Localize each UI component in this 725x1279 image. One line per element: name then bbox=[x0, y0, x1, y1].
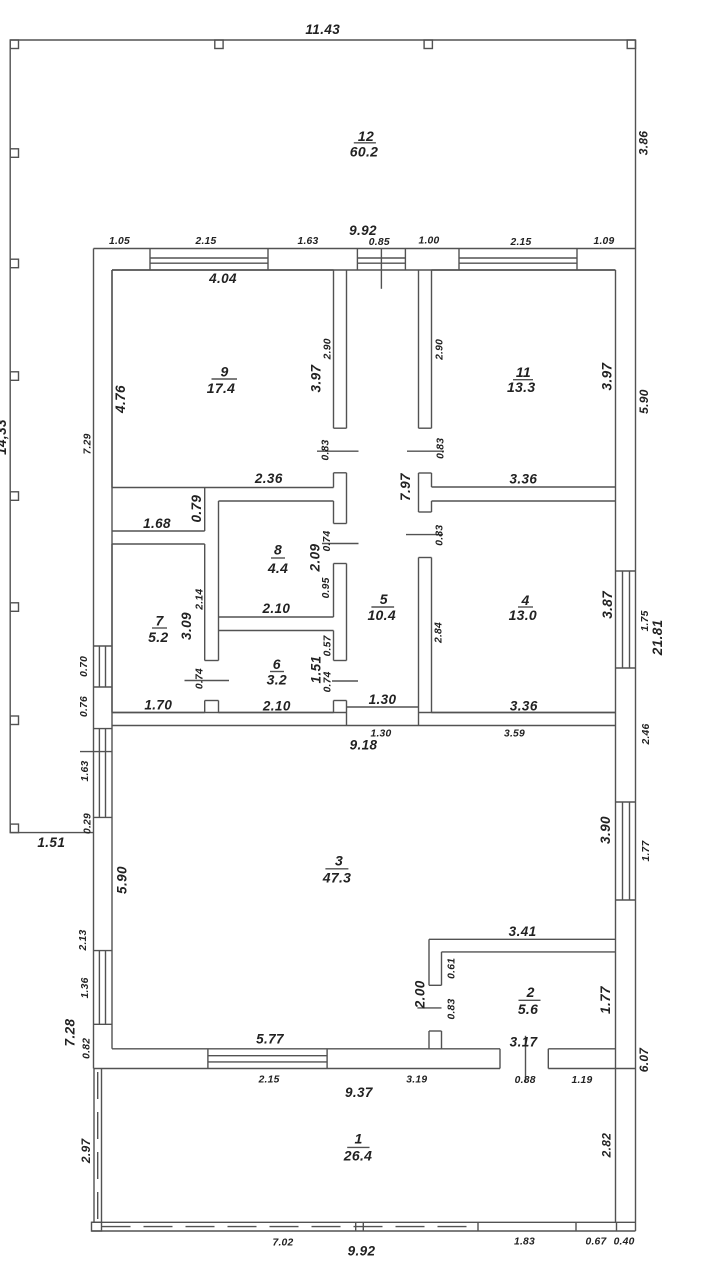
svg-text:21.81: 21.81 bbox=[650, 619, 665, 656]
left chain dims bbox=[78, 656, 94, 1059]
svg-text:5.77: 5.77 bbox=[256, 1032, 285, 1047]
window top wall room 9 bbox=[150, 249, 268, 271]
svg-text:0.74: 0.74 bbox=[323, 671, 334, 692]
svg-text:3.09: 3.09 bbox=[179, 612, 194, 640]
svg-text:5.6: 5.6 bbox=[518, 1001, 538, 1017]
svg-text:2.46: 2.46 bbox=[641, 723, 652, 745]
svg-text:3.19: 3.19 bbox=[406, 1075, 427, 1086]
svg-text:60.2: 60.2 bbox=[350, 144, 378, 160]
svg-text:1.83: 1.83 bbox=[514, 1237, 535, 1248]
svg-text:3.86: 3.86 bbox=[637, 131, 651, 156]
svg-text:6.07: 6.07 bbox=[637, 1047, 651, 1073]
corridor right wall bbox=[418, 270, 420, 726]
svg-text:3.36: 3.36 bbox=[509, 472, 537, 487]
door room4-corridor bbox=[406, 512, 443, 558]
room 6 box bbox=[219, 617, 334, 713]
svg-text:2.15: 2.15 bbox=[258, 1075, 280, 1086]
svg-text:2.97: 2.97 bbox=[79, 1137, 93, 1164]
room 9 labels bbox=[207, 271, 237, 396]
svg-text:0.95: 0.95 bbox=[321, 577, 332, 598]
svg-text:0.83: 0.83 bbox=[434, 525, 445, 546]
svg-text:3.97: 3.97 bbox=[600, 361, 615, 390]
svg-text:1.70: 1.70 bbox=[144, 698, 172, 713]
svg-text:2.10: 2.10 bbox=[261, 601, 290, 616]
svg-text:1.63: 1.63 bbox=[80, 760, 91, 781]
room 3 top chain bbox=[370, 729, 525, 740]
svg-text:0.85: 0.85 bbox=[369, 237, 390, 248]
room 1 bottom edge bbox=[92, 1222, 636, 1231]
door room6-corridor bbox=[332, 661, 358, 701]
window right wall room 3 bbox=[616, 802, 636, 900]
svg-text:3.41: 3.41 bbox=[509, 924, 537, 939]
svg-text:9.18: 9.18 bbox=[350, 738, 378, 753]
svg-text:3.87: 3.87 bbox=[600, 590, 615, 619]
svg-text:9: 9 bbox=[220, 364, 228, 380]
svg-text:9.92: 9.92 bbox=[348, 1244, 376, 1259]
svg-text:5: 5 bbox=[380, 591, 388, 607]
svg-text:0.70: 0.70 bbox=[79, 656, 90, 677]
svg-text:0.67: 0.67 bbox=[585, 1237, 607, 1248]
window left wall 0.70 bbox=[94, 646, 113, 687]
svg-text:3.36: 3.36 bbox=[510, 699, 538, 714]
building top wall bbox=[94, 249, 636, 271]
door room7-room6 bbox=[185, 661, 230, 701]
room 4 labels bbox=[509, 592, 537, 623]
svg-text:2.00: 2.00 bbox=[412, 980, 427, 1009]
window bottom wall 2.15 bbox=[208, 1049, 327, 1069]
window top wall corridor bbox=[357, 249, 405, 289]
svg-text:1.00: 1.00 bbox=[418, 236, 439, 247]
svg-text:0.88: 0.88 bbox=[515, 1075, 536, 1086]
svg-text:4.4: 4.4 bbox=[267, 560, 288, 576]
svg-text:9.92: 9.92 bbox=[349, 223, 377, 238]
svg-text:1.05: 1.05 bbox=[109, 236, 130, 247]
svg-text:2.84: 2.84 bbox=[434, 622, 445, 644]
svg-text:0.40: 0.40 bbox=[614, 1237, 635, 1248]
room 8 labels bbox=[267, 542, 288, 577]
svg-text:0.83: 0.83 bbox=[447, 998, 458, 1019]
room 1 labels bbox=[343, 1131, 372, 1164]
right outer wall bbox=[635, 40, 637, 1231]
svg-text:17.4: 17.4 bbox=[207, 380, 235, 396]
svg-text:0.79: 0.79 bbox=[189, 495, 204, 523]
room 11 box bbox=[432, 270, 616, 487]
svg-text:0.82: 0.82 bbox=[82, 1038, 93, 1059]
svg-text:1.63: 1.63 bbox=[297, 236, 318, 247]
room 2 outer walls bbox=[429, 939, 616, 1049]
room 4 box bbox=[432, 501, 616, 713]
svg-text:2.09: 2.09 bbox=[308, 543, 323, 572]
door room2-room1 bottom wall bbox=[500, 1036, 548, 1082]
svg-text:0.83: 0.83 bbox=[321, 439, 332, 460]
svg-text:14,33: 14,33 bbox=[0, 419, 9, 455]
svg-text:26.4: 26.4 bbox=[343, 1147, 372, 1163]
svg-text:2.15: 2.15 bbox=[509, 237, 531, 248]
svg-text:3: 3 bbox=[335, 853, 343, 869]
room 1 left wall bbox=[94, 1069, 102, 1223]
svg-text:10.4: 10.4 bbox=[367, 607, 395, 623]
svg-text:3.59: 3.59 bbox=[504, 729, 525, 740]
svg-text:4.04: 4.04 bbox=[208, 271, 237, 286]
room 2 inner walls bbox=[442, 952, 616, 1049]
svg-text:13.3: 13.3 bbox=[507, 379, 535, 395]
svg-text:0.74: 0.74 bbox=[322, 530, 333, 551]
svg-text:2.10: 2.10 bbox=[262, 699, 291, 714]
corridor left wall bbox=[346, 270, 348, 726]
svg-text:1: 1 bbox=[355, 1131, 363, 1147]
room 7 labels bbox=[148, 613, 168, 646]
svg-text:1.77: 1.77 bbox=[641, 839, 652, 861]
svg-text:1.68: 1.68 bbox=[143, 516, 171, 531]
svg-text:1.36: 1.36 bbox=[80, 977, 91, 998]
bottom line of middle rooms bbox=[112, 712, 616, 714]
window left wall 1.36 bbox=[94, 951, 113, 1025]
window top wall room 11 bbox=[459, 249, 577, 271]
svg-text:7.28: 7.28 bbox=[63, 1018, 78, 1046]
window right wall room 4 bbox=[616, 571, 636, 668]
svg-text:2.15: 2.15 bbox=[194, 236, 216, 247]
svg-text:5.90: 5.90 bbox=[637, 389, 651, 414]
svg-text:1.19: 1.19 bbox=[571, 1075, 592, 1086]
building bottom wall with door gap bbox=[94, 1049, 636, 1069]
svg-text:0.74: 0.74 bbox=[195, 668, 206, 689]
svg-text:7.02: 7.02 bbox=[272, 1238, 293, 1249]
svg-text:2.90: 2.90 bbox=[435, 339, 446, 361]
svg-text:2.82: 2.82 bbox=[599, 1133, 613, 1159]
svg-text:2.14: 2.14 bbox=[195, 589, 206, 611]
svg-text:0.29: 0.29 bbox=[83, 813, 94, 834]
room 3 top wall bbox=[112, 725, 616, 727]
svg-text:1.30: 1.30 bbox=[369, 692, 397, 707]
svg-text:0.76: 0.76 bbox=[79, 696, 90, 717]
building right inner wall bbox=[615, 270, 617, 1222]
svg-text:2.13: 2.13 bbox=[78, 929, 89, 951]
svg-text:3.2: 3.2 bbox=[267, 672, 287, 688]
svg-text:0.61: 0.61 bbox=[447, 958, 458, 979]
door room3-room2 bbox=[417, 985, 441, 1031]
svg-text:12: 12 bbox=[358, 128, 374, 144]
svg-text:4: 4 bbox=[520, 592, 529, 608]
svg-text:2.90: 2.90 bbox=[323, 338, 334, 360]
corridor bottom opening bbox=[347, 706, 419, 708]
room 1 bottom chain bbox=[272, 1237, 634, 1249]
svg-text:1.77: 1.77 bbox=[598, 985, 613, 1014]
wall above room 7 bbox=[112, 488, 205, 532]
svg-text:2.36: 2.36 bbox=[254, 471, 283, 486]
svg-text:5.90: 5.90 bbox=[115, 866, 130, 894]
svg-text:9.37: 9.37 bbox=[345, 1085, 374, 1100]
terrace posts top row bbox=[10, 40, 635, 49]
room 11 labels bbox=[507, 364, 535, 395]
room 6 labels bbox=[267, 656, 287, 688]
terrace room 12 outline bbox=[10, 40, 635, 833]
room 7 box bbox=[112, 544, 205, 713]
svg-text:4.76: 4.76 bbox=[113, 385, 128, 414]
svg-text:0.57: 0.57 bbox=[323, 634, 334, 656]
room 3 labels bbox=[322, 853, 351, 886]
svg-text:7.29: 7.29 bbox=[83, 433, 94, 454]
svg-text:3.17: 3.17 bbox=[510, 1035, 539, 1050]
svg-text:7: 7 bbox=[155, 613, 164, 629]
terrace posts left column bbox=[10, 149, 18, 833]
door room11-corridor bbox=[407, 428, 444, 473]
svg-text:1.51: 1.51 bbox=[309, 656, 324, 684]
room 1 top chain bbox=[258, 1075, 593, 1087]
building left wall bbox=[94, 249, 113, 1069]
room 8 box bbox=[219, 501, 334, 617]
svg-text:7.97: 7.97 bbox=[398, 472, 413, 501]
svg-text:8: 8 bbox=[274, 542, 282, 558]
svg-text:2: 2 bbox=[526, 984, 535, 1000]
door room9-corridor bbox=[317, 428, 359, 473]
room 5 labels bbox=[367, 591, 395, 623]
svg-text:1.09: 1.09 bbox=[593, 236, 614, 247]
svg-text:47.3: 47.3 bbox=[322, 869, 351, 885]
svg-text:0.83: 0.83 bbox=[435, 438, 446, 459]
svg-text:13.0: 13.0 bbox=[509, 607, 537, 623]
svg-text:3.90: 3.90 bbox=[598, 816, 613, 844]
svg-text:1.51: 1.51 bbox=[37, 835, 65, 850]
window left wall 1.63 bbox=[80, 729, 112, 818]
svg-text:11: 11 bbox=[516, 364, 531, 380]
svg-text:6: 6 bbox=[273, 656, 281, 672]
top chain dimensions bbox=[109, 236, 615, 249]
room 2 labels bbox=[518, 984, 541, 1017]
svg-text:11.43: 11.43 bbox=[305, 22, 340, 37]
svg-text:3.97: 3.97 bbox=[308, 363, 323, 392]
room 9 box bbox=[112, 270, 334, 488]
svg-text:5.2: 5.2 bbox=[148, 629, 168, 645]
room 12 label bbox=[350, 128, 378, 160]
door room8-corridor bbox=[322, 524, 359, 564]
